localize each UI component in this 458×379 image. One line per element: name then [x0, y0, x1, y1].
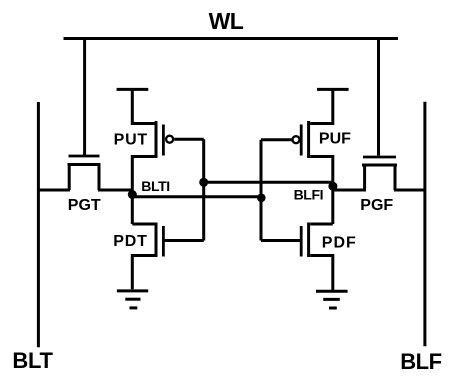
svg-text:BLF: BLF: [400, 349, 441, 374]
svg-text:PUT: PUT: [114, 131, 148, 148]
svg-text:WL: WL: [209, 8, 244, 34]
svg-text:BLT: BLT: [12, 348, 53, 373]
svg-text:PGF: PGF: [360, 197, 393, 214]
svg-text:PUF: PUF: [319, 131, 351, 148]
svg-text:PDT: PDT: [113, 233, 147, 250]
svg-text:PDF: PDF: [322, 234, 357, 251]
svg-text:BLTI: BLTI: [141, 178, 169, 194]
svg-text:PGT: PGT: [68, 197, 101, 214]
svg-text:BLFI: BLFI: [294, 187, 324, 203]
